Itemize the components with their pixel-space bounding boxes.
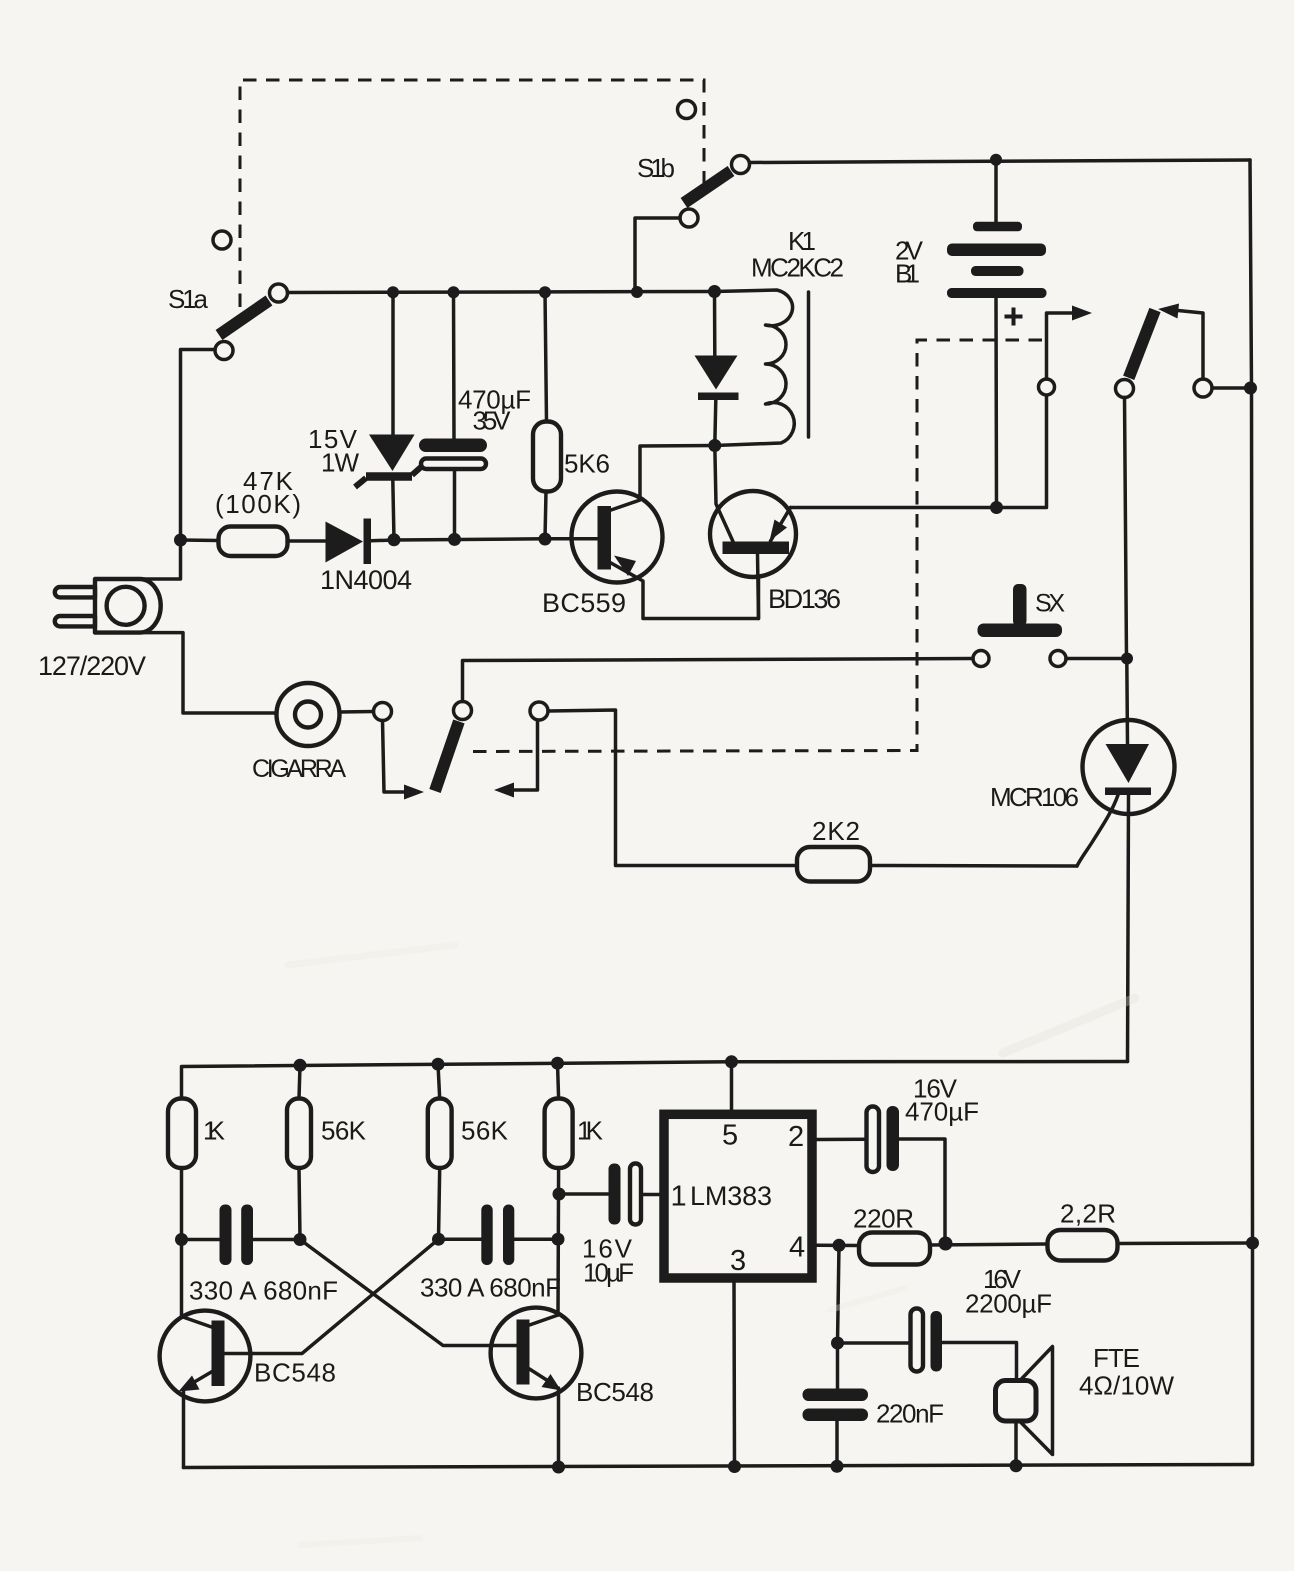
pin 3 xyxy=(730,1245,746,1277)
wire pin4 node down to 2200uF xyxy=(838,1245,911,1343)
svg-text:(100K): (100K) xyxy=(215,489,301,519)
node battery minus wire xyxy=(990,501,1003,514)
svg-text:2200µF: 2200µF xyxy=(965,1289,1052,1319)
pin 1 xyxy=(671,1181,687,1213)
wire bottom ground rail xyxy=(184,1465,1253,1468)
capacitor C1 680nF xyxy=(182,1205,301,1266)
node rail 56K-1 xyxy=(294,1059,307,1072)
svg-text:56K: 56K xyxy=(461,1116,509,1146)
svg-text:2,2R: 2,2R xyxy=(1060,1199,1116,1229)
label 220R xyxy=(853,1204,914,1234)
label 470uF (C4) xyxy=(905,1097,979,1127)
wire lower rail to BC559 base xyxy=(394,539,598,540)
node rail-S1b xyxy=(631,286,643,298)
node rail-zener xyxy=(387,286,399,298)
svg-text:2: 2 xyxy=(788,1121,804,1153)
svg-text:MC2KC2: MC2KC2 xyxy=(751,253,844,283)
svg-text:4: 4 xyxy=(789,1232,805,1264)
battery plus sign xyxy=(1005,308,1023,326)
thyristor MCR106 xyxy=(1077,659,1175,1062)
label 330 A 680nF left xyxy=(189,1276,338,1306)
wire main top rail xyxy=(288,292,715,293)
label MCR106 xyxy=(990,782,1079,812)
label 2K2 xyxy=(812,816,860,846)
switch S1b xyxy=(678,101,750,228)
node rail 1K-2 xyxy=(551,1057,564,1070)
wire pin4 to 220R xyxy=(817,1244,860,1248)
label 1K right xyxy=(577,1116,604,1146)
svg-text:BD136: BD136 xyxy=(768,584,841,614)
label 35V xyxy=(473,406,512,436)
node 10uF branch xyxy=(553,1188,566,1201)
resistor 5K6 xyxy=(533,292,561,539)
dashed mechanical link S1a-S1b xyxy=(240,80,704,307)
switch S1a xyxy=(213,231,288,360)
svg-text:K1: K1 xyxy=(788,226,816,256)
svg-text:330 A 680nF: 330 A 680nF xyxy=(420,1273,561,1303)
label LM383 xyxy=(690,1181,772,1211)
label 220nF xyxy=(876,1399,944,1429)
mains plug xyxy=(55,579,161,633)
diode D2 (relay flyback) xyxy=(695,292,739,446)
wire S2b left contact down to SX node xyxy=(1125,398,1127,659)
transistor Q2 BD136 xyxy=(710,446,796,619)
svg-text:BC548: BC548 xyxy=(254,1358,336,1388)
svg-text:2K2: 2K2 xyxy=(812,816,860,846)
svg-text:220nF: 220nF xyxy=(876,1399,944,1429)
svg-text:5: 5 xyxy=(722,1120,738,1152)
transistor Q1 BC559 xyxy=(572,446,759,619)
wire BD136 to battery minus xyxy=(791,396,1047,508)
node S2b border xyxy=(1244,382,1257,395)
node rail pin5 xyxy=(725,1055,738,1068)
resistor R5 220R xyxy=(859,1233,1048,1265)
transistor Q3 BC548 xyxy=(160,1311,251,1468)
node rail-cap xyxy=(448,286,460,298)
svg-text:1W: 1W xyxy=(321,448,359,478)
pin 5 xyxy=(722,1120,738,1152)
diode D1 1N4004 xyxy=(326,519,395,565)
label 2200uF xyxy=(965,1289,1052,1319)
wire S1b to battery/right border xyxy=(750,160,1251,163)
node ground 220nF xyxy=(831,1460,844,1473)
label CIGARRA xyxy=(252,755,346,783)
svg-text:10µF: 10µF xyxy=(583,1258,634,1288)
label 47K xyxy=(243,466,294,496)
resistor 47K (100K) xyxy=(181,527,326,557)
label S1a xyxy=(168,284,209,314)
node rail 56K-2 xyxy=(432,1058,445,1071)
node pin4 branch xyxy=(833,1239,846,1252)
svg-text:1: 1 xyxy=(671,1181,687,1213)
label 2V xyxy=(895,236,924,266)
wire S2a second contact to 2K2 xyxy=(548,710,797,866)
label BC548 right xyxy=(576,1377,654,1407)
transistor Q4 BC548 xyxy=(491,1308,582,1467)
wire S2b right contact to border xyxy=(1212,386,1250,390)
label 16V (10uF) xyxy=(582,1234,633,1264)
label FTE xyxy=(1093,1343,1140,1373)
relay coil K1 MC2KC2 xyxy=(715,290,809,446)
node lower-rail 5K6 xyxy=(539,533,552,546)
node lower-rail zener xyxy=(388,533,401,546)
svg-text:S1b: S1b xyxy=(637,153,675,183)
resistor R1 1K xyxy=(168,1099,196,1317)
battery B1 2V xyxy=(947,160,1047,508)
node rail-relay/diode xyxy=(708,285,721,298)
node cap2 left xyxy=(432,1233,445,1246)
capacitor C4 470uF 16V xyxy=(867,1106,946,1244)
label MC2KC2 xyxy=(751,253,844,283)
pushbutton SX xyxy=(973,584,1127,667)
svg-text:BC559: BC559 xyxy=(542,588,626,618)
wire pin3 to ground rail xyxy=(732,1283,736,1467)
switch S2b (lantern switch right) xyxy=(1116,304,1213,398)
label 470uF xyxy=(458,385,531,415)
svg-text:BC548: BC548 xyxy=(576,1377,654,1407)
node output border xyxy=(1246,1237,1259,1250)
resistor R3 56K xyxy=(428,1064,452,1239)
label BC548 left xyxy=(254,1358,336,1388)
label 2,2R xyxy=(1060,1199,1116,1229)
wire pin5 to rail xyxy=(730,1062,734,1110)
wire cross-coupling cap1 to Q4 base xyxy=(300,1240,517,1346)
label 127/220V xyxy=(38,651,146,681)
label BC559 xyxy=(542,588,626,618)
capacitor 470uF 35V xyxy=(419,292,487,539)
svg-text:470µF: 470µF xyxy=(905,1097,979,1127)
wire S1b lower contact to rail xyxy=(635,218,680,292)
connector arrow from battery plus xyxy=(1039,306,1093,396)
pin 2 xyxy=(788,1121,804,1153)
node lower-rail cap xyxy=(448,533,461,546)
pin 4 xyxy=(789,1232,805,1264)
svg-text:S1a: S1a xyxy=(168,284,209,314)
svg-text:SX: SX xyxy=(1035,590,1065,618)
svg-text:CIGARRA: CIGARRA xyxy=(252,755,346,783)
resistor R4 1K xyxy=(545,1063,573,1315)
node plug/47K/S1a junction xyxy=(174,534,187,547)
wire plug lower lead to buzzer xyxy=(141,633,277,713)
svg-text:330 A 680nF: 330 A 680nF xyxy=(189,1276,338,1306)
node SX / MCR106 anode xyxy=(1121,653,1133,665)
svg-text:FTE: FTE xyxy=(1093,1343,1140,1373)
dashed link battery to lantern contacts xyxy=(469,340,1042,752)
svg-text:1K: 1K xyxy=(577,1116,604,1146)
wire astable top rail xyxy=(182,1062,1128,1099)
node cap1 left xyxy=(175,1233,188,1246)
label 56K right xyxy=(461,1116,509,1146)
capacitor C6 220nF xyxy=(803,1343,869,1467)
label S1b xyxy=(637,153,675,183)
zener diode 15V 1W xyxy=(355,292,421,540)
capacitor C3 10uF 16V xyxy=(559,1164,660,1225)
node battery top xyxy=(990,154,1002,166)
node ground pin3 xyxy=(728,1460,741,1473)
svg-text:56K: 56K xyxy=(321,1116,367,1146)
label (100K) xyxy=(215,489,301,519)
label 15V xyxy=(308,424,358,454)
resistor R6 2,2R xyxy=(1048,1230,1253,1261)
svg-text:4Ω/10W: 4Ω/10W xyxy=(1079,1371,1174,1401)
label 4ohm/10W xyxy=(1079,1371,1174,1401)
label 56K left xyxy=(321,1116,367,1146)
label 330 A 680nF right xyxy=(420,1273,561,1303)
capacitor C5 2200uF 16V xyxy=(911,1309,1017,1379)
label 16V (470uF) xyxy=(913,1074,958,1104)
op-amp U1 LM383 xyxy=(664,1114,812,1278)
svg-text:MCR106: MCR106 xyxy=(990,782,1079,812)
svg-text:35V: 35V xyxy=(473,406,512,436)
resistor R2 56K xyxy=(287,1065,311,1239)
node 470uF to output xyxy=(939,1237,953,1251)
svg-text:3: 3 xyxy=(730,1245,746,1277)
label 1N4004 xyxy=(320,565,412,595)
svg-text:B1: B1 xyxy=(895,259,920,289)
capacitor C2 680nF xyxy=(439,1205,559,1266)
svg-text:LM383: LM383 xyxy=(690,1181,772,1211)
wire plug upper lead xyxy=(141,540,181,579)
wire cross-coupling cap2 to Q3 base xyxy=(225,1239,439,1353)
label 1W xyxy=(321,448,359,478)
switch S2a (lantern switch left) xyxy=(374,702,549,800)
svg-text:1K: 1K xyxy=(203,1116,226,1146)
buzzer CIGARRA xyxy=(277,683,374,746)
label 5K6 xyxy=(564,449,610,479)
svg-text:127/220V: 127/220V xyxy=(38,651,146,681)
node 2200uF/220nF branch xyxy=(831,1337,844,1350)
label 16V (2200uF) xyxy=(983,1264,1022,1294)
svg-text:1N4004: 1N4004 xyxy=(320,565,412,595)
label 10uF xyxy=(583,1258,634,1288)
node ground speaker xyxy=(1010,1459,1023,1472)
speaker FTE xyxy=(996,1347,1053,1466)
svg-text:5K6: 5K6 xyxy=(564,449,610,479)
node cap2 right xyxy=(552,1233,565,1246)
node cap1 right xyxy=(294,1233,307,1246)
wire S2a lever to SX xyxy=(463,659,974,702)
label K1 xyxy=(788,226,816,256)
wire pin2 to 470uF xyxy=(817,1138,867,1142)
wire right border xyxy=(1250,160,1253,1465)
node rail-5K6 xyxy=(539,286,551,298)
label BD136 xyxy=(768,584,841,614)
label B1 xyxy=(895,259,920,289)
label 1K left xyxy=(203,1116,226,1146)
wire S1a lower contact to plug/47K node xyxy=(181,350,216,541)
resistor 2K2 xyxy=(797,847,1077,882)
node ground Q4 xyxy=(552,1461,565,1474)
node relay bottom / BD136 xyxy=(708,439,721,452)
label SX xyxy=(1035,590,1065,618)
svg-text:220R: 220R xyxy=(853,1204,914,1234)
